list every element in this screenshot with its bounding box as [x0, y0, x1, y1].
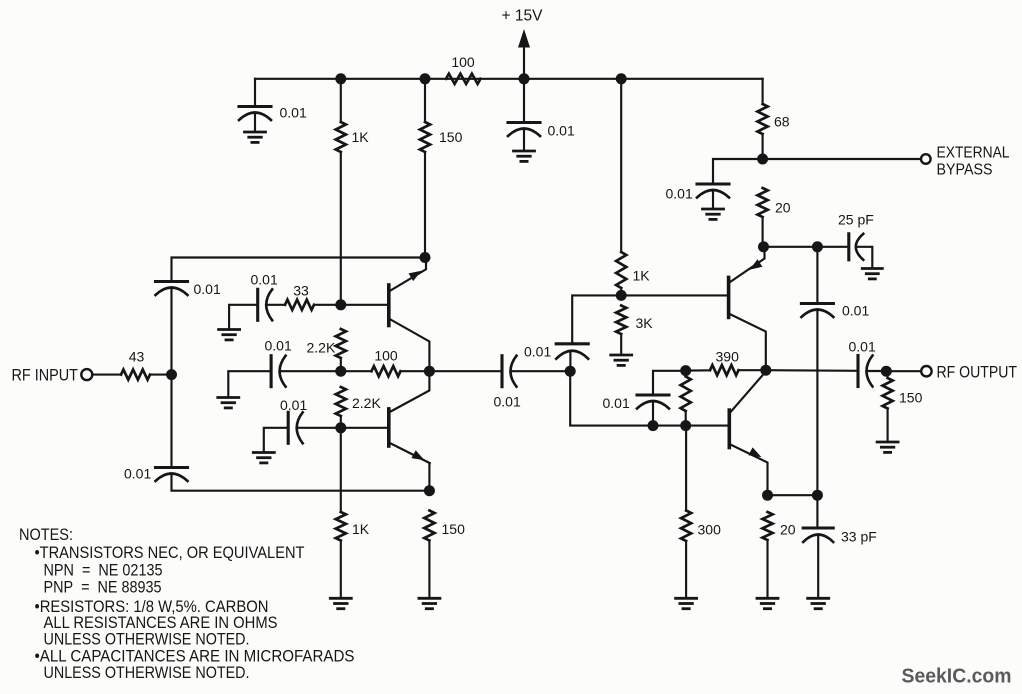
wire rail corner to R13: [762, 79, 764, 104]
wire R11 to divider node: [620, 288, 622, 295]
label R15 390: [716, 349, 740, 365]
svg-text:0.01: 0.01: [194, 281, 221, 297]
svg-text:0.01: 0.01: [265, 338, 292, 354]
wire 820 node to R15: [686, 369, 710, 371]
wire R7 to row C: [340, 416, 342, 428]
svg-text:0.01: 0.01: [494, 394, 521, 410]
wire C4 to R5: [266, 304, 285, 306]
wire R13 to bypass node: [762, 134, 764, 159]
node y490 / R10 junction: [424, 485, 435, 496]
svg-text:RF OUTPUT: RF OUTPUT: [937, 364, 1018, 382]
wire C8 to stage2 node: [511, 370, 571, 372]
label C6 0.01: [280, 397, 307, 413]
label C10 0.01: [666, 186, 693, 202]
wire R6 to row B: [340, 358, 342, 371]
svg-text:0.01: 0.01: [280, 105, 307, 121]
label RF INPUT: [12, 367, 79, 385]
wire 25pF node down to C12: [816, 247, 818, 302]
transistor Q4 base bar: [727, 410, 731, 447]
capacitor C4 0.01 (row A coupling): [258, 289, 273, 320]
label R17 300: [698, 522, 722, 538]
label R7 2.2K: [352, 395, 381, 411]
ground G13 under C14: [808, 598, 829, 608]
node bypass junction: [757, 154, 768, 165]
ground G7 under R10: [419, 598, 440, 608]
wire C15 to output node: [867, 370, 887, 372]
svg-text:0.01: 0.01: [849, 339, 876, 355]
svg-text:25 pF: 25 pF: [838, 212, 874, 228]
label R3 150: [439, 129, 463, 145]
wire output node to terminal: [886, 370, 920, 372]
node divider junction: [616, 290, 627, 301]
node input junction: [166, 369, 177, 380]
resistor R7 2.2K (stage1 lower bias): [336, 387, 346, 416]
wire R17 to ground: [685, 541, 687, 598]
capacitor C15 0.01 (output coupling): [858, 356, 873, 387]
node rail/R11 junction: [616, 73, 627, 84]
wire R18 to ground: [766, 540, 768, 598]
svg-text:0.01: 0.01: [842, 303, 869, 319]
transistor Q3 emitter (PNP arrow to base): [729, 247, 765, 283]
svg-text:20: 20: [780, 522, 796, 538]
transistor Q1 emitter (up to 150 node): [389, 258, 426, 292]
capacitor C13 0.01 (820 bypass): [637, 395, 669, 409]
capacitor C3 0.01 (input shunt upper): [156, 282, 188, 296]
wire collector node to C8: [429, 370, 502, 372]
wire R10 to ground: [428, 541, 430, 599]
node B row B junction: [335, 366, 346, 377]
node stage2 input junction: [565, 366, 576, 377]
wire collector node to C15: [766, 369, 858, 372]
svg-text:300: 300: [698, 522, 722, 538]
wire input node down to C7: [170, 375, 172, 467]
ground G1 under C1: [245, 132, 266, 142]
svg-text:100: 100: [451, 54, 475, 70]
svg-text:NOTES:: NOTES:: [19, 526, 73, 544]
transistor Q2 base bar: [387, 409, 391, 446]
node collector junction stage1: [424, 366, 435, 377]
svg-text:UNLESS OTHERWISE NOTED.: UNLESS OTHERWISE NOTED.: [44, 664, 250, 682]
label C9 0.01: [524, 344, 551, 360]
svg-text:PNP = NE 88935: PNP = NE 88935: [44, 579, 162, 597]
resistor R15 390 (stage2 fb series): [710, 365, 739, 375]
wire stage2 node down and right: [570, 371, 653, 425]
capacitor C12 0.01 (bootstrap): [801, 304, 833, 318]
transistor Q3 collector: [729, 314, 766, 371]
logo SeekIC.com: [902, 665, 1012, 688]
wire 300 from y425 node down: [685, 426, 687, 511]
wire C13 dome to y425: [652, 401, 654, 426]
svg-text:NPN = NE 02135: NPN = NE 02135: [44, 562, 163, 580]
label C3 0.01: [194, 281, 221, 297]
svg-text:43: 43: [129, 349, 145, 365]
label R11 1K: [633, 268, 651, 284]
svg-text:150: 150: [439, 129, 463, 145]
wire C1 to ground: [254, 113, 256, 132]
node emitter rail / Q1: [420, 252, 431, 263]
svg-text:390: 390: [716, 349, 740, 365]
svg-text:20: 20: [775, 200, 791, 216]
capacitor C5 0.01 (row B coupling): [271, 356, 286, 387]
transistor Q3 base bar: [727, 277, 731, 317]
resistor R10 150 (Q2 emitter): [424, 511, 434, 541]
wire 820 to bottom node: [685, 411, 687, 426]
label R13 68: [774, 114, 790, 130]
wire C9 dome to node: [569, 351, 571, 371]
ground G4 row B: [218, 398, 239, 408]
wire C9 up to divider row: [572, 295, 621, 343]
wire 25pF node to C11: [817, 246, 848, 248]
svg-text:•TRANSISTORS NEC, OR EQUIVALEN: •TRANSISTORS NEC, OR EQUIVALENT: [35, 544, 305, 562]
svg-text:+ 15V: + 15V: [502, 8, 544, 25]
wire C7 to y490 run: [172, 474, 430, 491]
svg-text:2.2K: 2.2K: [352, 395, 381, 411]
resistor R8 100 (interbase): [372, 366, 401, 376]
ground G14 under R19: [877, 442, 898, 452]
svg-text:0.01: 0.01: [666, 186, 693, 202]
wire Q3 emitter node to 25pF node: [764, 246, 818, 248]
node rail/R2 junction: [335, 73, 346, 84]
svg-text:EXTERNAL: EXTERNAL: [937, 145, 1010, 162]
wire R15 to Q34 collector node: [739, 369, 766, 371]
transistor Q2 collector: [389, 371, 430, 412]
wire C6 to node C: [297, 427, 341, 429]
svg-text:33 pF: 33 pF: [841, 529, 877, 545]
ground G12 under R18: [757, 598, 778, 608]
wire rail to R3: [424, 79, 426, 122]
resistor R2 1K (stage1 bias upper): [336, 122, 346, 152]
capacitor C9 0.01 (stage2 base block): [556, 344, 588, 359]
node A row A junction: [335, 299, 346, 310]
capacitor C11 25 pF: [849, 234, 864, 260]
notes text block: [19, 526, 355, 682]
node C13 bottom junction: [648, 420, 659, 431]
svg-text:UNLESS OTHERWISE NOTED.: UNLESS OTHERWISE NOTED.: [44, 631, 250, 649]
resistor R11 1K (stage2 bias upper): [616, 252, 626, 288]
label R10 150: [442, 521, 466, 537]
wire row C ground stub: [264, 428, 288, 452]
label R12 3K: [636, 315, 654, 331]
wire +15V stem: [523, 46, 525, 79]
svg-text:0.01: 0.01: [603, 395, 630, 411]
label C7 0.01: [124, 466, 151, 482]
svg-text:100: 100: [374, 348, 398, 364]
svg-text:RF INPUT: RF INPUT: [12, 367, 79, 385]
svg-text:0.01: 0.01: [548, 123, 575, 139]
svg-text:3K: 3K: [636, 315, 654, 331]
wire bypass node to terminal: [763, 158, 921, 160]
capacitor C1 0.01 (rail bypass left): [239, 107, 271, 121]
resistor R12 3K (stage2 bias lower): [616, 306, 626, 335]
wire divider node to Q3 base: [621, 294, 728, 296]
wire R4 to input node: [150, 374, 172, 376]
wire bypass node to C10: [713, 159, 763, 183]
svg-text:0.01: 0.01: [124, 466, 151, 482]
resistor R9 1K (stage1 bottom bias): [336, 512, 346, 541]
wire R3 to emitter rail: [424, 152, 426, 258]
svg-text:0.01: 0.01: [280, 397, 307, 413]
label R14 20: [775, 200, 791, 216]
capacitor C2 0.01 (rail bypass mid): [508, 123, 540, 137]
wire C10 to ground: [712, 190, 714, 209]
label C11 25 pF: [838, 212, 874, 228]
resistor R16 820 (stage2 fb): [681, 377, 691, 412]
ground G10 under C11: [862, 269, 882, 279]
label R6 2.2K: [307, 340, 336, 356]
wire C2 stem: [523, 79, 525, 121]
node output junction: [881, 366, 892, 377]
node Q3 emitter junction: [758, 241, 769, 252]
wire C12 down crossing row B to emitter row: [816, 310, 818, 496]
wire rail to R11: [620, 79, 622, 252]
svg-text:1K: 1K: [352, 521, 370, 537]
svg-text:ALL RESISTANCES ARE IN OHMS: ALL RESISTANCES ARE IN OHMS: [44, 614, 278, 632]
label C5 0.01: [265, 338, 292, 354]
capacitor C14 33 pF: [803, 528, 833, 542]
svg-text:68: 68: [774, 114, 790, 130]
svg-text:BYPASS: BYPASS: [937, 162, 993, 179]
resistor R19 150 (output load): [882, 378, 892, 409]
label C4 0.01: [251, 272, 278, 288]
transistor Q4 emitter: [729, 444, 767, 495]
capacitor C8 0.01 (interstage coupling): [502, 356, 517, 387]
svg-text:2.2K: 2.2K: [307, 340, 336, 356]
resistor R17 300 (Q4 base bleed): [681, 511, 691, 541]
svg-text:1K: 1K: [352, 129, 370, 145]
label +15V: [502, 8, 544, 25]
transistor Q4 collector: [729, 372, 766, 414]
node 25pF junction: [812, 241, 823, 252]
label R2 1K: [352, 129, 370, 145]
node 33pF junction: [812, 490, 823, 501]
label C1 0.01: [280, 105, 307, 121]
svg-text:33: 33: [293, 283, 309, 299]
terminal RF INPUT: [81, 369, 92, 380]
terminal RF OUTPUT: [921, 366, 931, 376]
wire left vertical top corner: [170, 288, 172, 375]
transistor Q1 base bar: [387, 285, 391, 326]
resistor R5 33 (row A series): [285, 300, 314, 310]
wire node A to Q1 base: [341, 304, 389, 306]
wire node C down crossing y490: [340, 428, 342, 512]
ground G11 under R17: [676, 598, 697, 608]
label C8 0.01: [494, 394, 521, 410]
capacitor C7 0.01 (input shunt lower): [156, 468, 188, 482]
wire R5 to node A: [314, 304, 341, 306]
resistor R4 43 (input series): [121, 370, 150, 380]
label RF OUTPUT: [937, 364, 1018, 382]
ground G8 under R12: [611, 355, 632, 365]
wire C13 top corner to 820 node: [653, 371, 686, 395]
label R5 33: [293, 283, 309, 299]
wire main +15V rail: [255, 78, 763, 80]
resistor R6 2.2K (stage1 mid bias): [336, 329, 346, 358]
wire row B ground stub: [228, 371, 271, 397]
wire input to R4: [92, 374, 121, 376]
wire R9 to ground: [340, 541, 342, 599]
wire 33pF stem: [816, 495, 818, 526]
wire node C to Q2 base: [341, 427, 389, 429]
ground G2 under C2: [514, 151, 535, 161]
node Q4 emitter junction: [762, 490, 773, 501]
transistor Q1 collector: [389, 319, 430, 372]
wire R12 to ground: [620, 334, 622, 355]
ground G6 under R9: [330, 598, 351, 608]
resistor R18 20 (Q4 emitter): [762, 512, 772, 540]
svg-text:0.01: 0.01: [251, 272, 278, 288]
label EXTERNAL: [937, 145, 1010, 162]
wire rail to R2: [340, 79, 342, 122]
resistor R14 20 (Q3 emitter): [757, 188, 767, 217]
node 820 bottom junction: [680, 420, 691, 431]
label R1 100: [451, 54, 475, 70]
svg-text:•ALL CAPACITANCES ARE IN MICRO: •ALL CAPACITANCES ARE IN MICROFARADS: [35, 647, 355, 665]
label BYPASS: [937, 162, 993, 179]
wire row A ground stub: [229, 305, 258, 329]
svg-text:1K: 1K: [633, 268, 651, 284]
wire C2 to ground: [523, 129, 525, 151]
label C2 0.01: [548, 123, 575, 139]
capacitor C10 0.01 (bypass cap): [697, 184, 729, 198]
wire C11 to ground corner: [857, 247, 872, 268]
node rail/C2 junction: [519, 73, 530, 84]
label C15 0.01: [849, 339, 876, 355]
svg-text:150: 150: [442, 521, 466, 537]
label C12 0.01: [842, 303, 869, 319]
label R4 43: [129, 349, 145, 365]
node rail/R3 junction: [420, 73, 431, 84]
label R9 1K: [352, 521, 370, 537]
transistor Q2 emitter (down to 150): [389, 443, 431, 491]
ground G3 row A: [219, 330, 240, 340]
node Q3/Q4 collector junction: [760, 365, 771, 376]
label C14 33 pF: [841, 529, 877, 545]
resistor R13 68 (bypass upper): [757, 104, 767, 134]
wire C14 to ground: [817, 535, 819, 599]
wire C1 stem from rail: [254, 79, 256, 105]
wire C3 to emitter-rail corner: [172, 258, 426, 282]
wire R2 to node A: [340, 152, 342, 305]
resistor R1 100 (rail decoupling): [446, 74, 481, 84]
svg-text:SeekIC.com: SeekIC.com: [902, 665, 1012, 688]
label R8 100: [374, 348, 398, 364]
svg-text:150: 150: [899, 390, 923, 406]
ground G5 row C: [253, 453, 274, 463]
wire node B to R8: [341, 370, 372, 372]
wire emitter row: [768, 494, 818, 496]
label R18 20: [780, 522, 796, 538]
wire output node to R19: [887, 371, 889, 378]
terminal EXTERNAL BYPASS: [921, 154, 931, 164]
capacitor C6 0.01 (row C coupling): [288, 412, 303, 443]
label C13 0.01: [603, 395, 630, 411]
node 820 top junction: [680, 365, 691, 376]
resistor R3 150 (Q1 load): [420, 122, 430, 152]
wire y425 across to Q4 base: [653, 425, 729, 427]
wire R19 to ground: [887, 409, 889, 442]
ground G9 under C10: [703, 209, 724, 219]
wire C5 to node B: [280, 370, 341, 372]
power +15V arrow: [518, 29, 530, 48]
node C row C junction: [335, 422, 346, 433]
wire R8 to collector node: [401, 370, 430, 372]
wire R14 to Q3 emitter node: [762, 217, 764, 247]
svg-text:0.01: 0.01: [524, 344, 551, 360]
label R19 150: [899, 390, 923, 406]
